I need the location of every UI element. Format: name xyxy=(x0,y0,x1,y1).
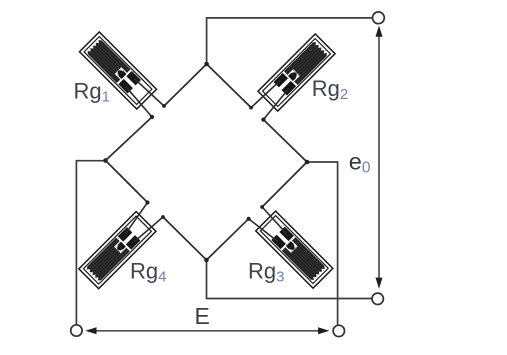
svg-text:E: E xyxy=(195,303,210,329)
wire: Rg2 lead B xyxy=(251,80,280,107)
node: Rg1 tap dot xyxy=(150,115,154,119)
terminal: top-right output xyxy=(373,12,385,24)
wire: Rg1 lead B xyxy=(134,78,164,106)
wire: bridge edge, top node to Rg2 xyxy=(207,64,252,108)
wire: Rg1 lead A xyxy=(126,87,152,117)
node: top junction dot xyxy=(204,62,209,67)
wire: Rg3 lead B xyxy=(249,219,279,242)
svg-text:e0: e0 xyxy=(349,149,371,177)
terminal: bottom-right E xyxy=(333,325,344,336)
svg-text:Rg2: Rg2 xyxy=(312,76,348,103)
node: Rg2 tap dot xyxy=(261,118,265,122)
node: left junction dot xyxy=(103,158,108,163)
wire: bottom node down and across to eo- terminal xyxy=(207,260,378,299)
wire: Rg4 lead B xyxy=(134,217,163,242)
arrowhead E right xyxy=(318,327,329,334)
wire: left node across and down to bottom-left E terminal xyxy=(76,161,105,331)
node: right junction dot xyxy=(305,160,310,165)
svg-text:Rg3: Rg3 xyxy=(248,259,284,286)
strain gauge Rg2 xyxy=(258,34,335,111)
arrowhead E left xyxy=(85,327,96,334)
arrowhead eo down xyxy=(376,278,383,289)
wire: bridge edge, Rg3 tap to bottom node xyxy=(207,219,249,260)
node: Rg4 lead B corner dot xyxy=(161,215,165,219)
wire: bridge edge, Rg2 tap to right node xyxy=(263,120,307,162)
terminal: eo- output xyxy=(372,293,383,304)
wire: Rg2 lead A xyxy=(263,89,288,120)
dimension line E xyxy=(88,330,327,332)
terminal: bottom-left E xyxy=(71,325,82,336)
arrowhead eo up xyxy=(376,26,383,37)
node: Rg4 tap dot xyxy=(145,200,149,204)
node: bottom junction dot xyxy=(204,258,209,263)
strain gauge Rg4 xyxy=(79,212,156,289)
node: Rg1 lead B corner dot xyxy=(162,104,166,108)
wire: bridge edge, right node to Rg3 xyxy=(262,162,307,207)
wire: right node across and down to bottom-right E terminal xyxy=(307,162,338,331)
strain gauge Rg1 xyxy=(79,32,156,109)
strain gauge Rg3 xyxy=(256,211,333,288)
dimension line eo xyxy=(378,30,380,283)
node: Rg3 lead B corner dot xyxy=(260,205,264,209)
svg-text:Rg4: Rg4 xyxy=(130,259,166,286)
wire: top node up and across to top-right terminal xyxy=(207,18,379,64)
svg-text:Rg1: Rg1 xyxy=(74,79,110,106)
wire: bridge edge, bottom node to Rg4 xyxy=(163,217,207,260)
node: Rg3 tap dot xyxy=(247,217,251,221)
wire: bridge edge, Rg1 to top node xyxy=(164,64,207,106)
wire: bridge edge, left node to Rg1 tap xyxy=(106,117,153,161)
wire: Rg4 lead A xyxy=(125,203,147,235)
wire: Rg3 lead A xyxy=(262,207,286,233)
wire: bridge edge, Rg4 tap to left node xyxy=(106,161,148,203)
node: Rg2 lead B corner dot xyxy=(249,106,253,110)
